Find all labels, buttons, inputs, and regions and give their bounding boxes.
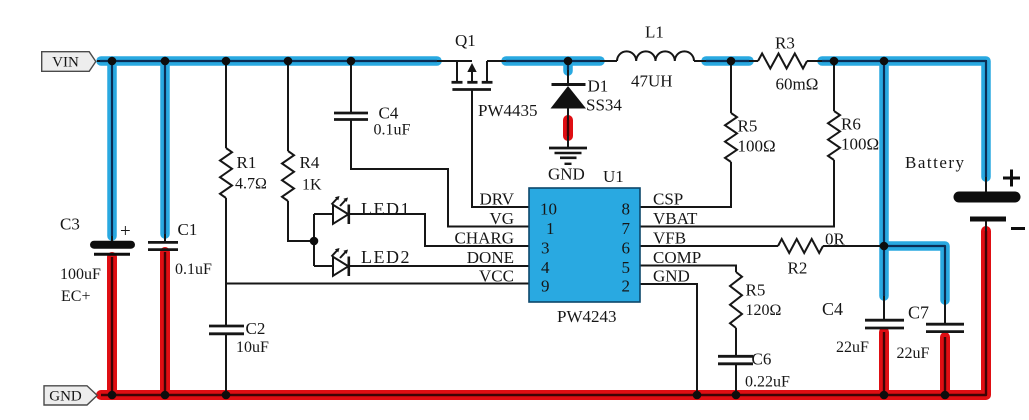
svg-text:0R: 0R: [825, 230, 846, 249]
resistor R4: [282, 151, 294, 201]
node VIN-C3: [108, 57, 117, 66]
wire R3 to battery plus: [807, 61, 986, 192]
svg-text:R2: R2: [788, 259, 808, 278]
svg-text:0.1uF: 0.1uF: [175, 261, 212, 278]
wire R2-C7 centre: [884, 246, 945, 300]
node CSP-R5: [727, 57, 736, 66]
svg-text:C1: C1: [178, 220, 198, 239]
wire LED2 anode: [314, 265, 333, 267]
svg-text:47UH: 47UH: [631, 72, 673, 91]
svg-text:Battery: Battery: [905, 153, 966, 172]
svg-text:0.1uF: 0.1uF: [374, 122, 411, 139]
svg-text:10: 10: [540, 200, 557, 219]
svg-text:8: 8: [622, 200, 631, 219]
node R2-C4b: [880, 242, 889, 251]
svg-text:4: 4: [541, 258, 550, 277]
svg-text:100uF: 100uF: [60, 266, 101, 283]
node LED split: [310, 237, 319, 246]
wire R2 to node: [823, 245, 884, 247]
wire R5b to C6: [735, 328, 737, 356]
node VBAT-R6: [830, 57, 839, 66]
wire Q1 drain to L1: [487, 60, 617, 62]
svg-text:R1: R1: [237, 153, 257, 172]
svg-text:CHARG: CHARG: [454, 229, 514, 248]
svg-text:PW4435: PW4435: [478, 101, 538, 120]
svg-text:9: 9: [541, 277, 550, 296]
wire D1 anode to ground: [567, 108, 569, 148]
wire GND rail centre: [101, 231, 986, 395]
svg-text:4.7Ω: 4.7Ω: [235, 176, 267, 193]
wire C7 top lead: [944, 300, 946, 324]
wire node to C4b top: [883, 296, 885, 320]
node VIN-C1: [161, 57, 170, 66]
svg-text:5: 5: [622, 258, 631, 277]
wire GND pin to rail: [640, 284, 697, 395]
wire VBAT column centre: [883, 61, 885, 296]
svg-text:0.22uF: 0.22uF: [745, 374, 790, 391]
wire D1 gnd stub centre: [567, 120, 569, 136]
svg-text:1: 1: [546, 219, 555, 238]
svg-text:LED2: LED2: [361, 247, 411, 267]
wire C4b bottom centre: [883, 332, 885, 395]
svg-text:C7: C7: [908, 303, 929, 323]
wire VCC pin to R1/C2 node: [226, 283, 529, 285]
svg-text:GND: GND: [548, 165, 585, 184]
resistor R2 (0R): [778, 239, 823, 253]
svg-text:U1: U1: [603, 167, 624, 186]
node GND-C7: [941, 391, 950, 400]
svg-text:C2: C2: [246, 319, 266, 338]
wire C6 bottom lead: [735, 364, 737, 395]
svg-text:DONE: DONE: [467, 248, 514, 267]
svg-text:CSP: CSP: [653, 190, 683, 209]
wire D1 node stub highlight: [563, 61, 573, 71]
svg-text:COMP: COMP: [653, 248, 701, 267]
svg-text:120Ω: 120Ω: [746, 302, 782, 319]
wire C3 bottom centre: [111, 257, 113, 395]
svg-text:R5: R5: [746, 281, 766, 300]
svg-text:10uF: 10uF: [236, 339, 269, 356]
wire VIN rail highlight: [101, 56, 437, 66]
capacitor C7 (22uF): [926, 324, 964, 331]
svg-text:3: 3: [541, 239, 550, 258]
wire C1 bottom centre: [164, 252, 166, 395]
svg-text:1K: 1K: [302, 177, 322, 194]
wire C3 bottom stub highlight: [107, 257, 117, 395]
wire C1 column: [164, 61, 166, 242]
wire C1 stub centre: [164, 61, 166, 234]
node GND tag: [44, 386, 97, 405]
capacitor C1: [148, 242, 178, 249]
wire D1 stub centre: [567, 61, 569, 70]
wire L1 to R3: [694, 60, 758, 62]
wire C1 top stub highlight: [160, 61, 170, 234]
wire C4 bottom to VG pin: [351, 119, 529, 227]
svg-text:Q1: Q1: [455, 31, 476, 50]
svg-text:VFB: VFB: [653, 229, 686, 248]
svg-text:L1: L1: [645, 23, 664, 42]
node GND-C4b: [880, 391, 889, 400]
diode D1 (SS34): [552, 83, 586, 86]
wire VIN rail to Q1: [97, 60, 472, 62]
wire R2-to-C7 highlight: [884, 246, 945, 300]
wire Q1-to-L1 highlight: [506, 56, 600, 66]
node VIN-R4: [284, 57, 293, 66]
svg-text:GND: GND: [49, 389, 82, 405]
svg-text:SS34: SS34: [586, 96, 622, 115]
node VIN-R1: [222, 57, 231, 66]
wire C2 bottom lead: [225, 334, 227, 395]
capacitor C4b (22uF): [865, 320, 904, 328]
wire L1-to-R3 highlight: [706, 56, 749, 66]
node GND-C3: [108, 391, 117, 400]
svg-text:PW4243: PW4243: [557, 307, 617, 326]
battery symbol: [959, 192, 1015, 203]
svg-text:DRV: DRV: [479, 190, 514, 209]
node VBAT-C4b: [880, 57, 889, 66]
node VIN-C4: [347, 57, 356, 66]
svg-text:C6: C6: [752, 350, 772, 369]
svg-text:R3: R3: [775, 34, 795, 53]
svg-text:EC+: EC+: [61, 288, 90, 305]
wire CSP pin to R5: [640, 162, 731, 207]
wire C3 column: [111, 61, 113, 241]
wire R4 bottom to LED node: [288, 201, 314, 241]
resistor R6 (100 ohm): [828, 111, 840, 160]
capacitor C4 (0.1uF input): [334, 113, 368, 120]
svg-text:R5: R5: [738, 117, 758, 136]
svg-text:C3: C3: [60, 215, 80, 234]
wire R5 top lead: [730, 61, 732, 113]
wire C7 bottom stub highlight: [940, 337, 950, 395]
svg-text:R4: R4: [300, 153, 320, 172]
svg-text:VCC: VCC: [479, 267, 514, 286]
wire COMP pin to R5b: [640, 266, 736, 273]
capacitor C3 (electrolytic): [94, 245, 131, 255]
ground symbol under D1: [549, 148, 587, 164]
wire R1 bottom to C2: [225, 198, 227, 326]
wire R1 top lead: [225, 61, 227, 148]
wire VFB pin to R2: [640, 245, 778, 247]
wire R3-to-battery highlight: [822, 61, 986, 177]
svg-text:22uF: 22uF: [897, 345, 930, 362]
wire LED1 cathode to CHARG pin: [349, 214, 529, 246]
op-amp U1 (PW4243 IC body): [529, 188, 640, 302]
svg-text:D1: D1: [588, 77, 609, 96]
svg-text:VIN: VIN: [52, 55, 79, 71]
wire C1 bottom stub highlight: [160, 252, 170, 395]
svg-text:7: 7: [622, 219, 631, 238]
svg-text:R6: R6: [841, 115, 861, 134]
node GND-C2: [222, 391, 231, 400]
wire LED2 cathode to DONE pin: [349, 265, 529, 267]
wire C4 top lead: [350, 61, 352, 113]
wire D1 cathode lead: [567, 61, 569, 83]
wire Q1 gate to DRV pin: [472, 90, 529, 208]
wire GND rail highlight: [101, 231, 986, 395]
node VIN tag: [42, 52, 96, 72]
resistor R3 (60mOhm): [758, 54, 807, 69]
LED LED2: [332, 250, 349, 276]
inductor L1: [617, 51, 694, 61]
resistor R5 (100 ohm): [725, 113, 737, 162]
resistor R1: [220, 148, 232, 198]
svg-text:+: +: [120, 221, 131, 242]
svg-text:6: 6: [622, 239, 631, 258]
node GND-C6: [732, 391, 741, 400]
wire C3 stub centre: [111, 61, 113, 236]
node GND-C1: [161, 391, 170, 400]
wire VBAT column highlight: [879, 61, 889, 296]
wire R3-battery centre: [822, 61, 986, 177]
wire R6 top lead: [833, 61, 835, 111]
wire LED1 anode: [314, 213, 333, 215]
svg-text:C4: C4: [379, 104, 399, 123]
svg-text:2: 2: [622, 277, 631, 296]
wire VBAT pin to R6: [640, 160, 834, 227]
svg-text:VBAT: VBAT: [653, 209, 698, 228]
svg-text:GND: GND: [653, 267, 690, 286]
wire C3 top stub highlight: [107, 61, 117, 236]
wire C7 bottom centre: [944, 337, 946, 395]
svg-text:22uF: 22uF: [836, 339, 869, 356]
wire R4 top lead: [287, 61, 289, 151]
svg-text:100Ω: 100Ω: [738, 137, 776, 156]
wire D1 anode gnd stub highlight: [563, 120, 573, 136]
resistor R5b (120 ohm): [730, 272, 742, 328]
svg-text:60mΩ: 60mΩ: [776, 75, 819, 94]
svg-text:C4: C4: [822, 299, 843, 319]
wire VIN rail centre: [100, 60, 437, 62]
LED LED1: [332, 198, 349, 224]
svg-text:VG: VG: [489, 209, 514, 228]
node SW-D1: [564, 57, 573, 66]
node LED junction vertical: [313, 214, 315, 266]
svg-text:LED1: LED1: [361, 199, 411, 219]
transistor Q1 (PMOS PW4435): [452, 61, 493, 90]
capacitor C2: [209, 326, 244, 334]
svg-text:100Ω: 100Ω: [841, 135, 879, 154]
node GND-U1: [693, 391, 702, 400]
wire Q1-L1 centre: [506, 60, 600, 62]
capacitor C6: [718, 356, 753, 364]
wire L1-R3 centre: [706, 60, 749, 62]
wire battery minus lead: [985, 221, 987, 233]
wire C4b bottom stub highlight: [879, 332, 889, 395]
